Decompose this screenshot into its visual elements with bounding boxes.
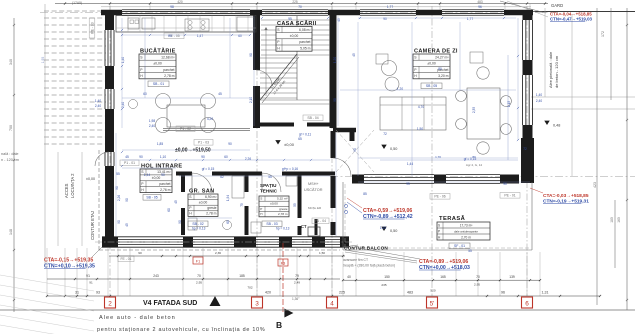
svg-text:185: 185 bbox=[239, 274, 245, 278]
svg-text:60: 60 bbox=[167, 208, 171, 212]
svg-text:CONTUR ETAJ: CONTUR ETAJ bbox=[90, 211, 95, 240]
svg-text:PE - 01: PE - 01 bbox=[504, 194, 515, 198]
svg-text:60: 60 bbox=[224, 155, 228, 159]
svg-text:340: 340 bbox=[9, 59, 13, 65]
svg-text:1,40: 1,40 bbox=[95, 99, 101, 103]
svg-text:nală : dale: nală : dale bbox=[1, 152, 19, 156]
svg-text:1,20: 1,20 bbox=[397, 87, 403, 91]
svg-text:S: S bbox=[438, 224, 440, 228]
svg-text:±0,00: ±0,00 bbox=[427, 62, 436, 66]
svg-text:SB - 01: SB - 01 bbox=[153, 82, 164, 86]
svg-text:treaptă + (280,00 față placă b: treaptă + (280,00 față placă beton) bbox=[343, 264, 395, 268]
svg-text:95: 95 bbox=[406, 182, 410, 186]
svg-text:1,98: 1,98 bbox=[149, 119, 155, 123]
svg-text:dale antiderapante: dale antiderapante bbox=[454, 230, 478, 234]
svg-text:1,15: 1,15 bbox=[507, 101, 511, 107]
svg-text:1,44: 1,44 bbox=[407, 162, 413, 166]
svg-text:60: 60 bbox=[226, 220, 230, 224]
svg-text:n - 120 cm: n - 120 cm bbox=[1, 158, 19, 162]
svg-text:96: 96 bbox=[501, 290, 505, 294]
svg-text:USCĂTOR: USCĂTOR bbox=[304, 188, 323, 192]
svg-text:90: 90 bbox=[228, 142, 232, 146]
svg-text:180: 180 bbox=[610, 217, 614, 223]
svg-text:S: S bbox=[260, 196, 262, 200]
svg-text:1,10: 1,10 bbox=[160, 155, 166, 159]
svg-text:55: 55 bbox=[268, 175, 272, 179]
svg-text:±0,00: ±0,00 bbox=[284, 142, 295, 147]
svg-text:17,73 m²: 17,73 m² bbox=[460, 224, 473, 228]
svg-text:72: 72 bbox=[523, 147, 527, 151]
svg-text:±0,00→+519,50: ±0,00→+519,50 bbox=[175, 148, 211, 154]
svg-text:Alee pietonală : dale: Alee pietonală : dale bbox=[548, 51, 553, 88]
svg-text:90: 90 bbox=[115, 186, 119, 190]
svg-text:420: 420 bbox=[265, 290, 271, 294]
svg-text:90: 90 bbox=[138, 251, 142, 255]
svg-text:SF - 01: SF - 01 bbox=[454, 244, 465, 248]
svg-text:483: 483 bbox=[407, 290, 413, 294]
svg-text:CAMERA DE ZI: CAMERA DE ZI bbox=[414, 48, 458, 54]
svg-text:139: 139 bbox=[509, 275, 515, 279]
svg-text:90: 90 bbox=[139, 155, 143, 159]
svg-text:±0,00: ±0,00 bbox=[199, 200, 208, 204]
svg-text:2,10: 2,10 bbox=[249, 97, 253, 103]
svg-text:2,78 m: 2,78 m bbox=[164, 74, 175, 78]
svg-text:2: 2 bbox=[108, 301, 112, 308]
svg-text:2,70 m: 2,70 m bbox=[461, 236, 471, 240]
svg-text:gf = 0,15: gf = 0,15 bbox=[464, 157, 477, 161]
svg-text:6,90 m²: 6,90 m² bbox=[205, 195, 217, 199]
svg-text:5': 5' bbox=[430, 301, 435, 308]
svg-text:2,35: 2,35 bbox=[472, 107, 476, 113]
svg-text:2,76 m: 2,76 m bbox=[160, 188, 171, 192]
svg-text:72: 72 bbox=[383, 132, 387, 136]
svg-text:F3: F3 bbox=[281, 261, 285, 265]
svg-text:1,94: 1,94 bbox=[226, 195, 230, 201]
svg-text:hp = 0,13: hp = 0,13 bbox=[276, 227, 290, 231]
svg-text:parchet: parchet bbox=[159, 182, 170, 186]
svg-text:±0,00: ±0,00 bbox=[86, 177, 95, 181]
svg-text:6,08 m²: 6,08 m² bbox=[299, 28, 311, 32]
svg-text:1,31: 1,31 bbox=[542, 290, 549, 294]
svg-text:±0,00: ±0,00 bbox=[152, 176, 161, 180]
svg-text:CTN=-0,47→+519,03: CTN=-0,47→+519,03 bbox=[550, 17, 593, 22]
svg-text:CT: CT bbox=[301, 224, 307, 229]
svg-text:2,95: 2,95 bbox=[196, 281, 202, 285]
svg-text:CTA=-0,03→+518,85: CTA=-0,03→+518,85 bbox=[543, 193, 589, 199]
svg-text:GARD: GARD bbox=[551, 3, 563, 8]
svg-text:45: 45 bbox=[125, 155, 129, 159]
svg-text:702: 702 bbox=[247, 286, 252, 290]
svg-text:0,48: 0,48 bbox=[553, 124, 560, 128]
svg-text:90: 90 bbox=[503, 182, 507, 186]
svg-text:HOL INTRARE: HOL INTRARE bbox=[141, 163, 182, 169]
svg-text:148: 148 bbox=[9, 229, 13, 235]
svg-text:BUCĂTĂRIE: BUCĂTĂRIE bbox=[140, 47, 176, 54]
svg-text:6: 6 bbox=[525, 301, 529, 308]
svg-text:CASA SCĂRII: CASA SCĂRII bbox=[277, 20, 317, 27]
svg-text:3,20 m: 3,20 m bbox=[438, 74, 449, 78]
svg-text:P1 - 02: P1 - 02 bbox=[180, 127, 191, 131]
svg-text:P1 - 03: P1 - 03 bbox=[198, 141, 209, 145]
svg-text:2,78 m: 2,78 m bbox=[278, 212, 288, 216]
svg-text:4: 4 bbox=[330, 301, 334, 308]
svg-text:B: B bbox=[276, 320, 282, 330]
svg-text:150: 150 bbox=[384, 275, 390, 279]
svg-text:90: 90 bbox=[249, 53, 253, 57]
svg-text:235: 235 bbox=[381, 283, 386, 287]
svg-text:700: 700 bbox=[9, 125, 13, 131]
svg-text:V1: V1 bbox=[86, 274, 90, 278]
svg-text:65: 65 bbox=[298, 137, 302, 141]
svg-text:3: 3 bbox=[255, 301, 259, 308]
svg-text:90: 90 bbox=[161, 173, 165, 177]
svg-text:1,85: 1,85 bbox=[157, 142, 163, 146]
svg-text:60: 60 bbox=[238, 34, 242, 38]
svg-text:93: 93 bbox=[96, 290, 100, 294]
svg-text:90: 90 bbox=[168, 34, 172, 38]
svg-text:de beton - 120 cm: de beton - 120 cm bbox=[554, 55, 559, 88]
svg-text:2,36: 2,36 bbox=[215, 251, 221, 255]
svg-text:hp = 0,13: hp = 0,13 bbox=[192, 227, 206, 231]
svg-text:45: 45 bbox=[337, 18, 341, 22]
svg-text:±0,00: ±0,00 bbox=[153, 62, 162, 66]
svg-text:TERASĂ: TERASĂ bbox=[439, 215, 466, 222]
svg-text:1,40: 1,40 bbox=[121, 57, 125, 63]
svg-text:SB - 05: SB - 05 bbox=[426, 84, 437, 88]
svg-text:90: 90 bbox=[333, 98, 337, 102]
svg-text:45: 45 bbox=[125, 223, 129, 227]
svg-text:90: 90 bbox=[125, 198, 129, 202]
svg-text:gf = 0,15: gf = 0,15 bbox=[202, 167, 215, 171]
svg-text:1,40: 1,40 bbox=[536, 93, 542, 97]
svg-text:parchet: parchet bbox=[163, 68, 174, 72]
svg-text:80: 80 bbox=[438, 67, 442, 71]
svg-text:SB - 05: SB - 05 bbox=[146, 196, 157, 200]
svg-text:79: 79 bbox=[295, 274, 299, 278]
svg-text:45: 45 bbox=[174, 200, 178, 204]
svg-text:2,78 m: 2,78 m bbox=[206, 212, 217, 216]
svg-text:PE - 03: PE - 03 bbox=[90, 22, 94, 33]
svg-text:45: 45 bbox=[352, 53, 356, 57]
svg-text:85: 85 bbox=[363, 192, 367, 196]
svg-text:4,70: 4,70 bbox=[418, 105, 424, 109]
svg-text:55: 55 bbox=[468, 249, 472, 253]
svg-text:90: 90 bbox=[117, 220, 121, 224]
svg-text:TEHNIC: TEHNIC bbox=[260, 189, 278, 194]
svg-text:98: 98 bbox=[170, 5, 174, 9]
svg-text:1,65: 1,65 bbox=[380, 226, 386, 230]
svg-text:96: 96 bbox=[478, 5, 482, 9]
svg-text:2,40: 2,40 bbox=[95, 104, 101, 108]
svg-text:V4 FATADA SUD: V4 FATADA SUD bbox=[143, 300, 197, 307]
svg-text:5,32 m²: 5,32 m² bbox=[277, 196, 288, 200]
svg-text:SB - 04: SB - 04 bbox=[307, 116, 318, 120]
svg-text:5,05 m: 5,05 m bbox=[300, 46, 311, 50]
svg-text:520: 520 bbox=[430, 288, 435, 292]
svg-text:P1 - 04: P1 - 04 bbox=[315, 219, 326, 223]
svg-text:MCȘL ER: MCȘL ER bbox=[308, 206, 322, 210]
svg-text:(17A5): (17A5) bbox=[72, 1, 82, 5]
svg-text:gresie: gresie bbox=[207, 206, 216, 210]
svg-text:SPAȚIU: SPAȚIU bbox=[260, 183, 277, 188]
svg-text:420: 420 bbox=[177, 0, 183, 4]
svg-text:ACCES: ACCES bbox=[64, 183, 69, 198]
svg-text:55: 55 bbox=[116, 172, 120, 176]
svg-text:GR. SAN: GR. SAN bbox=[189, 188, 214, 194]
svg-text:avansare firn CT: avansare firn CT bbox=[343, 258, 368, 262]
svg-text:±0,00: ±0,00 bbox=[270, 202, 278, 206]
svg-text:160: 160 bbox=[617, 217, 621, 223]
svg-text:70: 70 bbox=[298, 5, 302, 9]
svg-text:225: 225 bbox=[339, 290, 345, 294]
svg-text:F1: F1 bbox=[196, 259, 200, 263]
svg-text:31: 31 bbox=[75, 290, 79, 294]
svg-text:243: 243 bbox=[153, 274, 159, 278]
svg-text:62: 62 bbox=[220, 175, 224, 179]
svg-text:0,50: 0,50 bbox=[390, 147, 397, 151]
svg-text:1,44: 1,44 bbox=[144, 173, 150, 177]
svg-text:70: 70 bbox=[197, 274, 201, 278]
svg-text:225: 225 bbox=[292, 0, 298, 4]
svg-text:90: 90 bbox=[353, 148, 357, 152]
svg-text:12,68 m²: 12,68 m² bbox=[161, 55, 175, 59]
svg-text:2,40: 2,40 bbox=[121, 102, 125, 108]
svg-text:423: 423 bbox=[593, 182, 597, 188]
svg-text:0,50: 0,50 bbox=[390, 229, 397, 233]
svg-text:45: 45 bbox=[218, 92, 222, 96]
svg-text:2,26: 2,26 bbox=[117, 195, 121, 201]
svg-text:gf = 0,11: gf = 0,11 bbox=[299, 133, 311, 137]
svg-text:1,47: 1,47 bbox=[197, 34, 203, 38]
svg-text:parchet: parchet bbox=[299, 40, 310, 44]
svg-text:2,95: 2,95 bbox=[474, 283, 480, 287]
svg-text:90: 90 bbox=[178, 220, 182, 224]
svg-text:CONTUR BALCON: CONTUR BALCON bbox=[344, 246, 388, 251]
svg-text:1,50: 1,50 bbox=[319, 251, 325, 255]
svg-text:95: 95 bbox=[288, 17, 292, 21]
svg-text:2,49: 2,49 bbox=[294, 281, 300, 285]
svg-text:1,95: 1,95 bbox=[41, 57, 45, 64]
svg-text:1,70: 1,70 bbox=[435, 155, 441, 159]
svg-text:pentru staționare 2 autovehicu: pentru staționare 2 autovehicule, cu înc… bbox=[97, 327, 265, 333]
svg-text:1,77: 1,77 bbox=[387, 5, 393, 9]
svg-text:1,36°: 1,36° bbox=[292, 297, 300, 301]
svg-text:1,77: 1,77 bbox=[467, 17, 473, 21]
svg-text:gf+p = 0,16: gf+p = 0,16 bbox=[282, 167, 298, 171]
svg-text:Agr 4, G, 14: Agr 4, G, 14 bbox=[466, 163, 483, 167]
svg-text:90: 90 bbox=[201, 155, 205, 159]
svg-text:2,26: 2,26 bbox=[245, 157, 251, 161]
svg-text:LOCUINȚA 2: LOCUINȚA 2 bbox=[70, 173, 75, 198]
svg-text:PE - 06: PE - 06 bbox=[434, 195, 445, 199]
svg-text:P: P bbox=[260, 207, 262, 211]
svg-text:55: 55 bbox=[293, 203, 297, 207]
svg-text:91: 91 bbox=[89, 281, 93, 285]
svg-text:H: H bbox=[260, 212, 262, 216]
svg-text:2,40: 2,40 bbox=[149, 124, 155, 128]
svg-text:1,50: 1,50 bbox=[417, 127, 423, 131]
svg-text:Alee auto - dale beton: Alee auto - dale beton bbox=[99, 315, 176, 321]
svg-text:2,40: 2,40 bbox=[536, 99, 542, 103]
svg-text:40: 40 bbox=[347, 275, 351, 279]
svg-text:172: 172 bbox=[601, 31, 605, 37]
svg-text:483: 483 bbox=[477, 0, 483, 4]
svg-text:P: P bbox=[438, 230, 440, 234]
svg-text:4,20: 4,20 bbox=[207, 117, 213, 121]
svg-text:±0,00: ±0,00 bbox=[290, 34, 299, 38]
svg-text:24,27 m²: 24,27 m² bbox=[435, 55, 449, 59]
svg-text:P1 - 01: P1 - 01 bbox=[124, 161, 135, 165]
svg-text:165: 165 bbox=[440, 275, 446, 279]
svg-text:gresie: gresie bbox=[279, 207, 288, 211]
svg-text:70: 70 bbox=[476, 275, 480, 279]
svg-text:MSH+: MSH+ bbox=[308, 182, 319, 186]
svg-text:1,20: 1,20 bbox=[333, 57, 337, 63]
svg-text:75: 75 bbox=[240, 203, 244, 207]
svg-text:90: 90 bbox=[383, 17, 387, 21]
